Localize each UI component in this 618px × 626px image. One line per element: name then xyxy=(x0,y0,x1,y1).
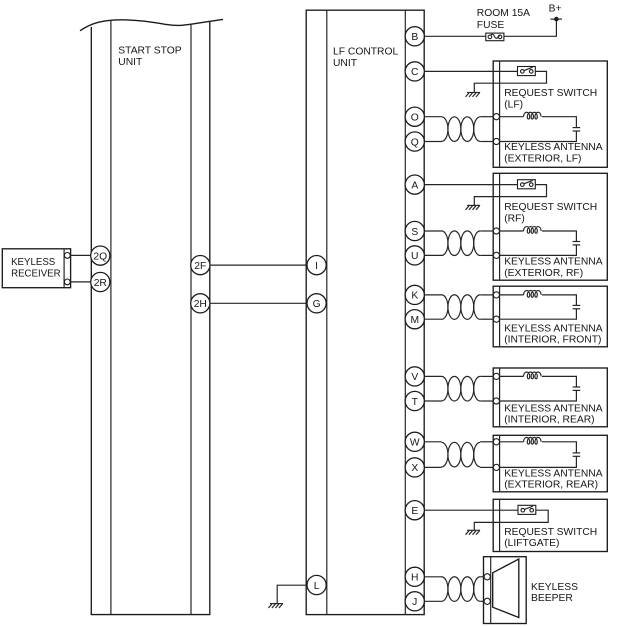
box3 inner left edge xyxy=(499,286,501,347)
fuse ROOM 15A body xyxy=(486,33,504,41)
keyless antenna interior rear loop: coil and capacitor xyxy=(500,375,524,377)
svg-text:W: W xyxy=(410,438,420,449)
svg-text:B: B xyxy=(411,32,418,43)
wire request switch RF to ground xyxy=(474,185,546,206)
terminal B xyxy=(405,27,424,46)
svg-text:FUSE: FUSE xyxy=(477,20,505,31)
svg-text:C: C xyxy=(411,67,419,78)
svg-text:(LIFTGATE): (LIFTGATE) xyxy=(504,538,559,549)
KEYLESS BEEPER box xyxy=(484,557,527,624)
twisted pair H/J xyxy=(424,576,441,578)
svg-text:(INTERIOR, FRONT): (INTERIOR, FRONT) xyxy=(504,335,601,346)
svg-text:(LF): (LF) xyxy=(504,100,523,111)
twisted pair K/M xyxy=(424,294,441,296)
box4 inner left edge xyxy=(499,368,501,427)
wire 2F to I xyxy=(210,264,307,266)
box5 inner left edge xyxy=(499,435,501,492)
box3 terminal pins xyxy=(493,292,499,298)
svg-text:UNIT: UNIT xyxy=(333,58,358,69)
ground (request switch RF) xyxy=(466,205,481,209)
terminal 2R xyxy=(91,272,110,291)
box KEYLESS ANTENNA (INTERIOR, REAR) xyxy=(493,368,607,427)
svg-text:LF CONTROL: LF CONTROL xyxy=(333,47,398,58)
request switch RF symbol xyxy=(518,180,536,189)
beeper speaker symbol xyxy=(493,559,519,618)
svg-text:(EXTERIOR, LF): (EXTERIOR, LF) xyxy=(504,154,581,165)
svg-text:E: E xyxy=(411,506,418,517)
svg-text:(RF): (RF) xyxy=(504,213,525,224)
box6 inner left edge xyxy=(499,499,501,551)
svg-text:KEYLESS ANTENNA: KEYLESS ANTENNA xyxy=(504,142,603,153)
box1 terminal pins xyxy=(493,114,499,120)
ground (request switch LF) xyxy=(466,93,481,97)
svg-text:I: I xyxy=(315,261,318,272)
box2 terminal pins xyxy=(493,228,499,234)
svg-text:O: O xyxy=(411,112,419,123)
box REQUEST SWITCH (LIFTGATE) xyxy=(493,499,607,551)
twisted pair V/T xyxy=(424,375,441,377)
svg-text:RECEIVER: RECEIVER xyxy=(11,269,61,280)
terminal K xyxy=(405,285,424,304)
svg-text:Q: Q xyxy=(411,137,419,148)
svg-text:KEYLESS ANTENNA: KEYLESS ANTENNA xyxy=(504,403,603,414)
svg-text:KEYLESS: KEYLESS xyxy=(531,582,578,593)
terminal 2Q xyxy=(91,246,110,265)
B+ dot xyxy=(554,17,559,22)
svg-text:M: M xyxy=(410,315,419,326)
keyless antenna RF loop: coil and capacitor xyxy=(500,230,524,232)
terminal J xyxy=(405,592,424,611)
terminal S xyxy=(405,221,424,240)
box REQUEST SWITCH (LF) / KEYLESS ANTENNA (EXTERIOR, LF) xyxy=(493,61,607,167)
svg-text:KEYLESS ANTENNA: KEYLESS ANTENNA xyxy=(504,323,603,334)
svg-text:S: S xyxy=(411,227,418,238)
receiver terminal pin2 xyxy=(64,279,70,285)
svg-text:UNIT: UNIT xyxy=(118,57,143,68)
twisted pair S/U xyxy=(424,230,441,232)
svg-text:KEYLESS ANTENNA: KEYLESS ANTENNA xyxy=(504,468,603,479)
terminal 2F xyxy=(191,256,210,275)
wire fuse to B+ xyxy=(504,19,557,36)
wire B to fuse xyxy=(424,35,485,37)
ground (L) xyxy=(268,604,283,608)
box KEYLESS ANTENNA (INTERIOR, FRONT) xyxy=(493,286,607,347)
START STOP UNIT right outer rail xyxy=(209,21,211,614)
terminal M xyxy=(405,310,424,329)
receiver terminal pin1 xyxy=(64,253,70,259)
beeper inner left edge xyxy=(490,557,492,624)
svg-text:X: X xyxy=(411,463,418,474)
terminal X xyxy=(405,458,424,477)
wire L to ground xyxy=(277,585,307,603)
wire C to request switch LF xyxy=(424,70,517,72)
svg-text:ROOM 15A: ROOM 15A xyxy=(477,8,530,19)
box2 inner left edge xyxy=(499,173,501,280)
terminal G xyxy=(307,294,326,313)
box1 inner left edge xyxy=(499,61,501,167)
wire 2H to G xyxy=(210,302,307,304)
box5 terminal pins xyxy=(493,439,499,445)
request switch LIFTGATE symbol xyxy=(518,505,536,514)
svg-text:REQUEST SWITCH: REQUEST SWITCH xyxy=(504,527,597,538)
svg-text:REQUEST SWITCH: REQUEST SWITCH xyxy=(504,202,597,213)
wire E to request switch LIFTGATE xyxy=(424,509,518,511)
svg-text:BEEPER: BEEPER xyxy=(531,593,573,604)
fuse element xyxy=(488,35,492,39)
svg-text:V: V xyxy=(411,372,418,383)
svg-text:2H: 2H xyxy=(194,299,207,310)
svg-text:G: G xyxy=(313,299,321,310)
terminal U xyxy=(405,246,424,265)
terminal I xyxy=(307,256,326,275)
START STOP UNIT left inner rail xyxy=(110,20,112,614)
START STOP UNIT left outer rail xyxy=(90,27,92,615)
svg-text:2F: 2F xyxy=(194,261,206,272)
beeper terminal pins xyxy=(484,574,490,580)
wavy break line at top of START STOP UNIT xyxy=(80,19,223,30)
svg-text:A: A xyxy=(411,180,418,191)
terminal V xyxy=(405,367,424,386)
LF CONTROL UNIT left inner rail xyxy=(326,10,328,614)
svg-text:KEYLESS: KEYLESS xyxy=(11,257,56,268)
keyless antenna exterior rear loop: coil and capacitor xyxy=(500,441,524,443)
box KEYLESS ANTENNA (EXTERIOR, REAR) xyxy=(493,435,607,492)
svg-text:2Q: 2Q xyxy=(93,251,107,262)
terminal H xyxy=(405,567,424,586)
terminal 2H xyxy=(191,294,210,313)
svg-text:K: K xyxy=(411,291,418,302)
box4 terminal pins xyxy=(493,373,499,379)
terminal C xyxy=(405,62,424,81)
LF CONTROL UNIT right inner rail xyxy=(404,10,406,614)
svg-text:B+: B+ xyxy=(549,4,562,15)
wire request switch LF to ground xyxy=(474,71,546,92)
START STOP UNIT bottom edge xyxy=(91,614,211,616)
wire receiver pin2 to 2R xyxy=(70,281,91,283)
request switch LF symbol xyxy=(518,67,536,76)
KEYLESS RECEIVER inner edge line xyxy=(63,249,65,288)
svg-text:2R: 2R xyxy=(94,278,107,289)
svg-text:(EXTERIOR, RF): (EXTERIOR, RF) xyxy=(504,268,583,279)
B+ bar xyxy=(550,18,562,20)
terminal E xyxy=(405,501,424,520)
svg-text:KEYLESS ANTENNA: KEYLESS ANTENNA xyxy=(504,257,603,268)
terminal L xyxy=(307,575,326,594)
svg-text:(EXTERIOR, REAR): (EXTERIOR, REAR) xyxy=(504,480,598,491)
KEYLESS RECEIVER box xyxy=(2,249,70,288)
svg-text:U: U xyxy=(411,251,418,262)
terminal A xyxy=(405,175,424,194)
ground (request switch LIFTGATE) xyxy=(466,530,481,534)
LF CONTROL UNIT box xyxy=(306,10,424,614)
svg-text:L: L xyxy=(314,581,320,592)
terminal T xyxy=(405,391,424,410)
box REQUEST SWITCH (RF) / KEYLESS ANTENNA (EXTERIOR, RF) xyxy=(493,173,607,280)
keyless antenna interior front loop: coil and capacitor xyxy=(500,294,524,296)
svg-text:T: T xyxy=(412,397,419,408)
terminal O xyxy=(405,107,424,126)
wire receiver pin1 to 2Q xyxy=(70,254,91,256)
svg-text:(INTERIOR, REAR): (INTERIOR, REAR) xyxy=(504,415,594,426)
twisted pair W/X xyxy=(424,441,441,443)
terminal W xyxy=(405,432,424,451)
terminal Q xyxy=(405,132,424,151)
svg-text:H: H xyxy=(411,573,418,584)
svg-text:J: J xyxy=(412,597,417,608)
wire A to request switch RF xyxy=(424,184,517,186)
svg-text:REQUEST SWITCH: REQUEST SWITCH xyxy=(504,88,597,99)
svg-text:START STOP: START STOP xyxy=(118,46,181,57)
keyless antenna LF loop: coil and capacitor xyxy=(500,116,524,118)
START STOP UNIT right inner rail xyxy=(190,24,192,614)
twisted pair O/Q xyxy=(424,116,441,118)
wire request switch LIFTGATE to ground xyxy=(474,510,548,530)
